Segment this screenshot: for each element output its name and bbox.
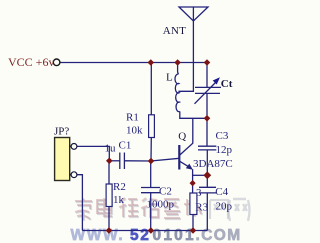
wire antenna tap: [178, 7, 193, 91]
svg-text:L: L: [166, 72, 173, 84]
svg-text:JP?: JP?: [54, 126, 69, 138]
junction base node: [148, 158, 155, 165]
capacitor Ct arrow: [195, 83, 216, 104]
wire bottom rail: [82, 230, 207, 232]
wire R1 bottom: [150, 138, 152, 162]
capacitor C1 plates: [119, 153, 121, 170]
capacitor C4 plates: [199, 186, 216, 188]
wire R3 bottom: [192, 215, 194, 231]
wire L bottom: [180, 111, 207, 118]
resistor R2: [106, 184, 112, 207]
wire C4 bottom: [206, 193, 208, 231]
wire C1 left: [109, 160, 120, 162]
wire C2 top: [150, 161, 152, 188]
junction rail Ct: [204, 59, 211, 66]
svg-text:WWW.: WWW.: [71, 227, 125, 243]
wire JP pin2 ground: [77, 175, 82, 231]
wire top rail VCC: [61, 62, 208, 64]
junction rail R1: [148, 59, 155, 66]
svg-text:C3: C3: [216, 130, 229, 142]
svg-text:20p: 20p: [216, 201, 233, 213]
wire Ct top: [206, 63, 208, 88]
svg-text:3: 3: [196, 187, 202, 199]
wire C3 top: [206, 118, 208, 146]
svg-text:52: 52: [130, 227, 150, 243]
junction rail L: [174, 59, 181, 66]
resistor R3: [190, 193, 197, 215]
transistor Q1 base bar: [178, 145, 180, 170]
svg-text:R2: R2: [113, 181, 126, 193]
wire JP pin1 to C1: [77, 146, 109, 160]
junction emitter R3: [190, 180, 196, 186]
svg-text:C1: C1: [119, 140, 132, 152]
watermark net glyph: [229, 199, 250, 221]
svg-text:12p: 12p: [216, 144, 233, 156]
transistor Q1 emitter: [180, 161, 190, 167]
antenna ANT: [179, 7, 208, 21]
wire R2 top: [108, 161, 110, 184]
svg-text:VCC +6v: VCC +6v: [8, 55, 54, 69]
wire L top: [177, 63, 180, 75]
VCC terminal circle: [53, 59, 60, 66]
wire C1 right: [124, 160, 151, 162]
wire base: [151, 158, 180, 161]
capacitor C3 plates: [198, 145, 216, 147]
svg-text:.COM: .COM: [196, 227, 242, 243]
svg-text:R3: R3: [195, 202, 208, 214]
transistor Q1 emitter arrow: [186, 164, 193, 170]
svg-text:C2: C2: [159, 186, 172, 198]
resistor R1: [149, 115, 155, 138]
capacitor Ct plates: [195, 86, 221, 88]
junction C3 C4 emitter: [203, 171, 211, 179]
junction tank bottom: [204, 115, 211, 122]
svg-text:R1: R1: [126, 111, 139, 123]
wire C3 bottom: [206, 150, 208, 175]
svg-text:C4: C4: [215, 186, 228, 198]
svg-text:1k: 1k: [113, 194, 125, 206]
wire emitter down: [192, 169, 194, 193]
wire C4 top: [206, 175, 208, 187]
junction rail R2: [106, 227, 113, 234]
capacitor Ct arrowhead: [213, 77, 220, 84]
wire Ct bottom: [206, 93, 208, 118]
junction rail C2: [148, 227, 155, 234]
junction C1 left: [106, 158, 113, 165]
connector JP pin 2: [70, 174, 72, 176]
wire emitter to C4: [193, 174, 208, 176]
wire C2 bottom: [150, 193, 152, 231]
wire R2 bottom: [108, 207, 110, 231]
wire R1 top: [150, 63, 152, 116]
connector JP? body: [55, 138, 70, 181]
svg-text:10k: 10k: [126, 125, 143, 137]
svg-text:Ct: Ct: [221, 78, 233, 90]
svg-text:3DA87C: 3DA87C: [193, 158, 233, 170]
svg-text:1u: 1u: [105, 143, 117, 155]
svg-text:ANT: ANT: [163, 25, 186, 37]
wire collector: [180, 118, 193, 155]
inductor L: [175, 74, 180, 112]
junction rail R3: [190, 227, 197, 234]
svg-text:1000p: 1000p: [147, 198, 175, 210]
capacitor C2 plates: [141, 187, 160, 189]
svg-text:Q: Q: [178, 130, 186, 142]
connector JP pin 1: [70, 145, 72, 147]
watermark url www.520101.com: [71, 227, 242, 243]
watermark chinese row: [76, 199, 228, 221]
svg-text:0101: 0101: [153, 227, 196, 243]
